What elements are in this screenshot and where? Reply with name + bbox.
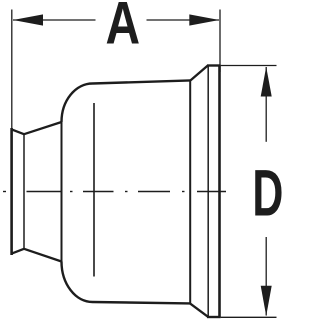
dimension line D upper segment [265, 67, 267, 142]
body left edge [61, 122, 63, 262]
centerline dash [197, 191, 226, 193]
centerline dash [138, 191, 170, 193]
body top edge [93, 80, 191, 83]
arrowhead D up [261, 67, 272, 97]
extension line bottom (dim D) [221, 316, 277, 318]
flare bottom edge [190, 303, 208, 317]
neck inner line [23, 134, 25, 250]
body bottom edge [93, 302, 191, 303]
extension line top (dim D) [221, 65, 277, 67]
body top-left arc [62, 84, 93, 123]
inner tangent line [93, 103, 95, 277]
neck left edge [10, 128, 13, 255]
lip bottom edge [11, 249, 24, 254]
centerline dot [182, 191, 185, 193]
rim top edge [207, 64, 221, 66]
centerline dash [83, 191, 114, 193]
lip top edge [11, 129, 24, 134]
dimension line A left segment [13, 19, 96, 21]
arrowhead A left [13, 14, 43, 25]
cone top edge [24, 122, 62, 134]
arrowhead D down [261, 286, 272, 316]
extension line right (dim A) [219, 10, 221, 73]
flare top edge [191, 66, 208, 81]
cone bottom edge [24, 249, 62, 262]
rim front face [207, 66, 209, 318]
centerline dash [27, 191, 62, 193]
rim bottom edge [207, 316, 221, 318]
svg-text:D: D [252, 156, 283, 230]
dimension line A right segment [147, 19, 220, 21]
arrowhead A right [189, 14, 219, 25]
rim right edge [218, 66, 221, 318]
body right edge [189, 80, 191, 303]
centerline dot [70, 191, 73, 193]
svg-text:A: A [106, 0, 141, 57]
extension line left (dim A) [11, 10, 13, 130]
dimension line D lower segment [265, 237, 267, 316]
body bottom-left arc [62, 262, 93, 303]
centerline dash [3, 191, 6, 193]
centerline dot [125, 191, 128, 193]
